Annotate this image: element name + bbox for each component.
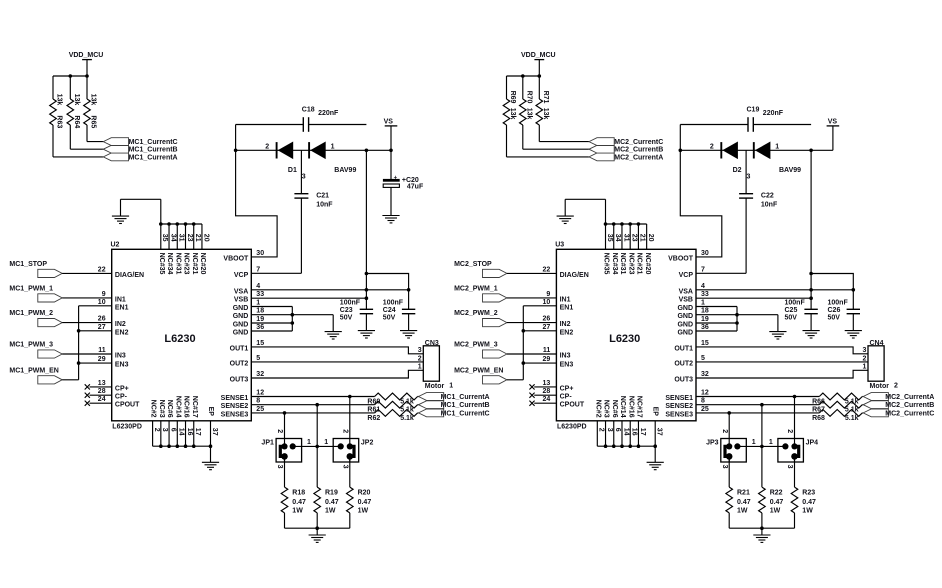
svg-text:R63: R63 bbox=[56, 115, 63, 128]
net label MC2_PWM_3 bbox=[454, 342, 498, 349]
wire VSA pin 4 bbox=[251, 289, 408, 291]
junction NC bus bbox=[167, 444, 171, 448]
wire VBOOT to bootstrap loop bbox=[236, 125, 278, 257]
svg-text:MC2_CurrentB: MC2_CurrentB bbox=[614, 147, 663, 154]
ground power resistors bbox=[309, 535, 326, 542]
resistor R69 13k bbox=[503, 76, 516, 157]
power VDD_MCU bbox=[521, 52, 556, 76]
svg-text:C21: C21 bbox=[316, 193, 329, 200]
svg-text:26: 26 bbox=[98, 316, 106, 323]
pin 20 NC#20 bbox=[199, 234, 209, 275]
wire jumper to R18 bbox=[284, 456, 286, 487]
junction NC bus bbox=[209, 444, 213, 448]
power VS bbox=[827, 119, 840, 126]
svg-text:NC#20: NC#20 bbox=[199, 253, 206, 275]
pin 31 NC#31 bbox=[619, 234, 629, 275]
flag MC1_CurrentC bbox=[103, 138, 128, 146]
wire SENSE1 bbox=[251, 396, 418, 398]
junction anode rail bbox=[809, 149, 813, 153]
svg-text:MC2_STOP: MC2_STOP bbox=[454, 261, 492, 268]
svg-text:22: 22 bbox=[543, 266, 551, 273]
wire SENSE3 drop to JP3 bbox=[728, 413, 730, 447]
pin 20 NC#20 bbox=[644, 234, 654, 275]
pin 15 OUT1 bbox=[674, 340, 709, 353]
capacitor C23 100nF 50V bbox=[340, 299, 373, 330]
svg-text:0.47: 0.47 bbox=[325, 499, 339, 506]
pin 14 NC#14 bbox=[174, 396, 184, 436]
wire JP3 pin1 to JP4 pin1 bbox=[737, 445, 785, 447]
svg-text:VCP: VCP bbox=[234, 272, 249, 279]
pin 30 VBOOT bbox=[668, 250, 709, 263]
part name L6230PD bbox=[112, 424, 142, 431]
wire bottom NC bus bbox=[153, 421, 211, 463]
net label MC2_CurrentA bbox=[614, 154, 663, 161]
pin 9 IN1 bbox=[546, 291, 570, 304]
resistor R23 0.47 1W bbox=[791, 487, 816, 528]
capacitor C25 100nF 50V bbox=[785, 299, 818, 330]
junction EN3 bus bbox=[77, 361, 81, 365]
wire SENSE3 bbox=[251, 412, 418, 414]
svg-text:NC#20: NC#20 bbox=[644, 253, 651, 275]
wire SENSE1 drop to JP2 bbox=[349, 397, 351, 447]
svg-text:DIAG/EN: DIAG/EN bbox=[560, 272, 589, 279]
svg-text:31: 31 bbox=[622, 234, 629, 242]
junction VS bbox=[389, 149, 393, 153]
pin 2 NC#2 bbox=[594, 400, 604, 432]
svg-text:13k: 13k bbox=[542, 108, 549, 120]
svg-text:VSB: VSB bbox=[234, 297, 248, 304]
wire PWM_EN to enable bus bbox=[62, 379, 78, 381]
svg-text:MC1_PWM_3: MC1_PWM_3 bbox=[9, 342, 53, 349]
svg-text:9: 9 bbox=[102, 291, 106, 298]
pin 32 OUT3 bbox=[230, 371, 265, 384]
pin 25 SENSE3 bbox=[665, 406, 709, 419]
wire to IN3 bbox=[507, 353, 557, 355]
pin 21 NC#21 bbox=[636, 234, 646, 275]
net label MC1_CurrentA bbox=[441, 394, 490, 401]
svg-text:NC#35: NC#35 bbox=[603, 253, 610, 275]
resistor R65 13k bbox=[84, 76, 97, 142]
svg-text:R68: R68 bbox=[812, 415, 825, 422]
pin 18 GND bbox=[677, 308, 708, 321]
pin 23 NC#23 bbox=[183, 234, 193, 275]
wire VSB pin 33 bbox=[251, 297, 366, 299]
pin 3 NC#3 bbox=[158, 400, 168, 432]
pin 19 GND bbox=[233, 316, 264, 329]
pin 31 NC#31 bbox=[174, 234, 184, 275]
svg-text:3: 3 bbox=[721, 465, 728, 469]
svg-text:GND: GND bbox=[233, 322, 249, 329]
wire power resistor rail bbox=[285, 528, 350, 535]
svg-text:C26: C26 bbox=[828, 307, 841, 314]
pin 16 NC#16 bbox=[627, 396, 637, 436]
svg-text:SENSE3: SENSE3 bbox=[221, 411, 249, 418]
net label MC1_PWM_3 bbox=[9, 342, 53, 349]
svg-text:DIAG/EN: DIAG/EN bbox=[115, 272, 144, 279]
svg-text:L6230: L6230 bbox=[164, 333, 195, 345]
svg-text:C22: C22 bbox=[761, 193, 774, 200]
svg-text:NC#6: NC#6 bbox=[166, 400, 173, 418]
svg-text:NC#16: NC#16 bbox=[627, 396, 634, 418]
svg-text:9: 9 bbox=[546, 291, 550, 298]
svg-text:100nF: 100nF bbox=[785, 299, 806, 306]
junction VSA bbox=[809, 288, 855, 292]
svg-text:MC1_CurrentC: MC1_CurrentC bbox=[441, 410, 490, 417]
svg-text:23: 23 bbox=[186, 234, 193, 242]
pin 1 GND bbox=[677, 300, 705, 313]
wire VS to rail bbox=[832, 126, 834, 150]
svg-text:MC2_CurrentC: MC2_CurrentC bbox=[614, 139, 663, 146]
resistor R63 13k bbox=[50, 76, 63, 157]
svg-text:OUT2: OUT2 bbox=[674, 360, 693, 367]
svg-text:R19: R19 bbox=[325, 489, 338, 496]
wire enable bus vertical bbox=[522, 306, 524, 380]
svg-text:2: 2 bbox=[341, 429, 348, 433]
svg-text:50V: 50V bbox=[383, 315, 396, 322]
svg-text:NC#21: NC#21 bbox=[191, 253, 198, 275]
svg-text:20: 20 bbox=[647, 234, 654, 242]
part name L6230PD bbox=[557, 424, 587, 431]
svg-text:10: 10 bbox=[98, 299, 106, 306]
svg-text:3: 3 bbox=[302, 174, 306, 181]
svg-text:VS: VS bbox=[828, 119, 838, 126]
svg-text:2: 2 bbox=[276, 429, 283, 433]
wire STOP to DIAG/EN pin 22 bbox=[507, 272, 557, 274]
pin 35 NC#35 bbox=[158, 234, 168, 275]
svg-text:5: 5 bbox=[701, 355, 705, 362]
wire bottom NC bus bbox=[597, 421, 655, 463]
wire EN2 to enable bus bbox=[523, 330, 556, 332]
wire OUT2 pin 5 bbox=[251, 361, 423, 363]
svg-text:13k: 13k bbox=[90, 94, 97, 106]
svg-text:0.47: 0.47 bbox=[802, 499, 816, 506]
wire to flag CurrentC bbox=[539, 141, 589, 143]
pin 34 NC#34 bbox=[166, 234, 176, 275]
svg-text:19: 19 bbox=[701, 316, 709, 323]
svg-text:GND: GND bbox=[677, 305, 693, 312]
junction VDD rail bbox=[69, 74, 89, 78]
junction rail center bbox=[315, 526, 319, 530]
wire top NC bus bbox=[161, 224, 202, 249]
net label MC1_PWM_1 bbox=[9, 286, 53, 293]
wire SENSE1 bbox=[696, 396, 863, 398]
svg-text:MC2_CurrentA: MC2_CurrentA bbox=[885, 394, 934, 401]
svg-text:14: 14 bbox=[622, 428, 629, 436]
svg-text:NC#3: NC#3 bbox=[158, 400, 165, 418]
junction SENSE2 bbox=[315, 403, 319, 407]
svg-text:IN1: IN1 bbox=[115, 296, 126, 303]
flag MC2_CurrentB bbox=[589, 145, 614, 153]
svg-text:16: 16 bbox=[186, 428, 193, 436]
svg-text:NC#14: NC#14 bbox=[619, 396, 626, 418]
svg-text:1: 1 bbox=[324, 439, 328, 446]
pin 15 OUT1 bbox=[230, 340, 265, 353]
junction NC bus bbox=[192, 222, 196, 226]
pin 32 OUT3 bbox=[674, 371, 709, 384]
svg-text:NC#2: NC#2 bbox=[150, 400, 157, 418]
svg-text:MC1_CurrentB: MC1_CurrentB bbox=[441, 402, 490, 409]
svg-text:13: 13 bbox=[98, 380, 106, 387]
svg-text:MC2_PWM_1: MC2_PWM_1 bbox=[454, 286, 498, 293]
ground EP bbox=[647, 462, 664, 469]
wire OUT3 pin 32 bbox=[251, 370, 423, 378]
svg-text:JP4: JP4 bbox=[806, 440, 819, 447]
svg-text:JP3: JP3 bbox=[706, 440, 719, 447]
svg-text:MC1_CurrentA: MC1_CurrentA bbox=[129, 154, 178, 161]
wire to flag CurrentB bbox=[70, 148, 103, 150]
pin 16 NC#16 bbox=[183, 396, 193, 436]
pin 2 NC#2 bbox=[150, 400, 160, 432]
svg-text:VDD_MCU: VDD_MCU bbox=[69, 52, 104, 59]
svg-text:R23: R23 bbox=[802, 489, 815, 496]
wire OUT1 pin 15 bbox=[251, 347, 423, 354]
pin 17 NC#17 bbox=[191, 396, 201, 436]
flag MC2_PWM_EN bbox=[483, 376, 507, 384]
svg-text:MC2_PWM_3: MC2_PWM_3 bbox=[454, 342, 498, 349]
svg-text:7: 7 bbox=[701, 266, 705, 273]
svg-text:1: 1 bbox=[307, 439, 311, 446]
wire SENSE1 drop to JP4 bbox=[794, 397, 796, 447]
junction NC bus bbox=[175, 444, 179, 448]
wire to IN1 bbox=[62, 297, 111, 299]
svg-text:29: 29 bbox=[98, 356, 106, 363]
pin 24 CPOUT no-connect bbox=[85, 396, 140, 409]
junction jumper rail bbox=[315, 445, 319, 449]
wire VSA pin 4 bbox=[696, 289, 853, 291]
pin 28 CP- no-connect bbox=[85, 388, 128, 401]
svg-text:2: 2 bbox=[721, 429, 728, 433]
resistor R18 0.47 1W bbox=[281, 487, 306, 528]
svg-text:1W: 1W bbox=[737, 508, 748, 515]
net label MC2_PWM_1 bbox=[454, 286, 498, 293]
svg-text:BAV99: BAV99 bbox=[334, 167, 356, 174]
svg-text:MC1_CurrentC: MC1_CurrentC bbox=[129, 139, 178, 146]
svg-text:13k: 13k bbox=[56, 94, 63, 106]
pin 5 OUT2 bbox=[674, 355, 705, 368]
svg-text:35: 35 bbox=[606, 234, 613, 242]
pin 8 SENSE2 bbox=[665, 398, 705, 411]
svg-text:14: 14 bbox=[178, 428, 185, 436]
svg-text:NC#34: NC#34 bbox=[166, 253, 173, 275]
wire to IN2 bbox=[62, 322, 111, 324]
svg-text:EP: EP bbox=[207, 407, 214, 417]
svg-text:U3: U3 bbox=[555, 242, 564, 249]
svg-text:20: 20 bbox=[202, 234, 209, 242]
junction NC bus bbox=[159, 444, 163, 448]
wire EN3 to enable bus bbox=[79, 362, 112, 364]
svg-text:2: 2 bbox=[265, 143, 269, 150]
jumper JP3 bbox=[503, 52, 818, 542]
junction SENSE1 bbox=[793, 395, 797, 399]
ground top NC bus bbox=[112, 199, 161, 224]
svg-text:4: 4 bbox=[256, 283, 260, 290]
svg-text:2: 2 bbox=[418, 355, 422, 362]
flag MC1_CurrentA bbox=[419, 393, 444, 401]
junction GND18 bbox=[735, 313, 739, 317]
svg-text:VBOOT: VBOOT bbox=[223, 255, 249, 262]
pin 1 GND bbox=[233, 300, 261, 313]
svg-text:MC2_PWM_EN: MC2_PWM_EN bbox=[454, 367, 503, 374]
svg-text:CN4: CN4 bbox=[870, 340, 884, 347]
svg-text:EN2: EN2 bbox=[560, 329, 574, 336]
capacitor C20 47uF bbox=[383, 150, 424, 215]
junction rail bbox=[365, 272, 369, 276]
svg-text:NC#3: NC#3 bbox=[603, 400, 610, 418]
svg-text:NC#14: NC#14 bbox=[174, 396, 181, 418]
junction GND18 bbox=[291, 313, 295, 317]
svg-text:MC1_PWM_EN: MC1_PWM_EN bbox=[9, 367, 58, 374]
svg-text:Motor: Motor bbox=[425, 383, 445, 390]
junction NC bus bbox=[628, 222, 632, 226]
svg-text:1W: 1W bbox=[770, 508, 781, 515]
svg-text:21: 21 bbox=[194, 234, 201, 242]
value L6230 bbox=[609, 333, 640, 345]
svg-text:13k: 13k bbox=[73, 94, 80, 106]
svg-text:CPOUT: CPOUT bbox=[115, 402, 140, 409]
svg-text:MC1_CurrentB: MC1_CurrentB bbox=[129, 147, 178, 154]
pin 19 GND bbox=[677, 316, 708, 329]
resistor R60 5.1k bbox=[367, 393, 417, 405]
wire SENSE3 bbox=[696, 412, 863, 414]
svg-text:GND: GND bbox=[677, 330, 693, 337]
wire to IN2 bbox=[507, 322, 557, 324]
ground C26 bbox=[845, 331, 862, 338]
wire GND pins bracket bbox=[251, 307, 333, 332]
junction VDD rail bbox=[521, 74, 541, 78]
svg-text:SENSE1: SENSE1 bbox=[665, 395, 693, 402]
svg-text:EP: EP bbox=[652, 407, 659, 417]
svg-text:27: 27 bbox=[543, 324, 551, 331]
pin 27 EN2 bbox=[98, 324, 129, 337]
junction VSB bbox=[365, 296, 369, 300]
pin 35 NC#35 bbox=[603, 234, 613, 275]
svg-text:18: 18 bbox=[701, 308, 709, 315]
svg-text:CP-: CP- bbox=[115, 394, 128, 401]
wire VS rail down to VSA/VSB bbox=[366, 150, 408, 309]
svg-text:17: 17 bbox=[194, 428, 201, 436]
pin 1 labels bbox=[752, 439, 773, 446]
pin 4 VSA bbox=[234, 283, 260, 296]
pin 33 VSB bbox=[234, 291, 264, 304]
wire OUT2 pin 5 bbox=[696, 361, 868, 363]
svg-text:5.1k: 5.1k bbox=[845, 415, 859, 422]
svg-text:C24: C24 bbox=[383, 307, 396, 314]
pin 18 GND bbox=[233, 308, 264, 321]
svg-text:15: 15 bbox=[701, 340, 709, 347]
svg-text:R62: R62 bbox=[367, 415, 380, 422]
wire VBOOT to bootstrap loop bbox=[680, 125, 722, 257]
ground C23 bbox=[358, 331, 375, 338]
svg-text:21: 21 bbox=[639, 234, 646, 242]
wire EN2 to enable bus bbox=[79, 330, 112, 332]
svg-text:R22: R22 bbox=[770, 489, 783, 496]
svg-text:24: 24 bbox=[543, 396, 551, 403]
resistor R61 5.1k bbox=[367, 401, 417, 413]
svg-text:28: 28 bbox=[543, 388, 551, 395]
svg-text:NC#31: NC#31 bbox=[619, 253, 626, 275]
junction bootstrap left bbox=[679, 149, 683, 153]
svg-text:29: 29 bbox=[543, 356, 551, 363]
svg-text:220nF: 220nF bbox=[318, 110, 339, 117]
svg-text:NC#23: NC#23 bbox=[627, 253, 634, 275]
svg-text:R18: R18 bbox=[292, 489, 305, 496]
svg-text:1: 1 bbox=[862, 364, 866, 371]
net label MC2_CurrentC bbox=[885, 410, 934, 417]
junction anode rail bbox=[365, 149, 369, 153]
pin 29 EN3 bbox=[98, 356, 129, 369]
pin 23 NC#23 bbox=[627, 234, 637, 275]
svg-text:CP-: CP- bbox=[560, 394, 573, 401]
pin 24 CPOUT no-connect bbox=[529, 396, 584, 409]
junction NC bus bbox=[175, 222, 179, 226]
pin 34 NC#34 bbox=[611, 234, 621, 275]
ground C24 bbox=[400, 331, 417, 338]
svg-text:32: 32 bbox=[256, 371, 264, 378]
svg-text:50V: 50V bbox=[340, 315, 353, 322]
junction NC bus bbox=[167, 222, 171, 226]
svg-text:1W: 1W bbox=[325, 508, 336, 515]
svg-text:CP+: CP+ bbox=[115, 385, 129, 392]
svg-text:CPOUT: CPOUT bbox=[560, 402, 585, 409]
junction VSB bbox=[809, 296, 813, 300]
pin 6 NC#6 bbox=[166, 400, 176, 432]
junction NC bus bbox=[653, 444, 657, 448]
wire anode rail bbox=[680, 149, 833, 151]
svg-text:EN3: EN3 bbox=[560, 362, 574, 369]
pin 36 GND bbox=[233, 324, 264, 337]
pin 13 CP+ no-connect bbox=[85, 380, 129, 393]
flag MC2_CurrentC bbox=[589, 138, 614, 146]
jumper JP2 bbox=[50, 52, 935, 542]
svg-text:16: 16 bbox=[631, 428, 638, 436]
junction NC bus bbox=[612, 444, 616, 448]
svg-text:GND: GND bbox=[233, 313, 249, 320]
svg-text:IN3: IN3 bbox=[115, 353, 126, 360]
svg-text:IN2: IN2 bbox=[560, 321, 571, 328]
svg-text:2: 2 bbox=[598, 428, 605, 432]
ground C20 bbox=[382, 216, 399, 223]
flag MC1_PWM_1 bbox=[38, 294, 62, 302]
net label MC1_CurrentC bbox=[441, 410, 490, 417]
diode D2 BAV99 pair bbox=[710, 142, 801, 181]
svg-text:VS: VS bbox=[384, 119, 394, 126]
svg-text:L6230: L6230 bbox=[609, 333, 640, 345]
svg-text:NC#35: NC#35 bbox=[158, 253, 165, 275]
svg-text:GND: GND bbox=[233, 330, 249, 337]
svg-text:U2: U2 bbox=[111, 242, 120, 249]
svg-text:47uF: 47uF bbox=[407, 184, 424, 191]
svg-text:7: 7 bbox=[256, 266, 260, 273]
svg-text:OUT3: OUT3 bbox=[230, 377, 249, 384]
svg-text:NC#34: NC#34 bbox=[611, 253, 618, 275]
pin 8 SENSE2 bbox=[221, 398, 261, 411]
pin 11 IN3 bbox=[543, 347, 571, 360]
svg-text:1: 1 bbox=[775, 143, 779, 150]
wire jumper to R19 bbox=[316, 486, 318, 488]
svg-text:27: 27 bbox=[98, 324, 106, 331]
svg-text:37: 37 bbox=[211, 428, 218, 436]
svg-text:11: 11 bbox=[543, 347, 551, 354]
wire VS to rail bbox=[390, 126, 392, 150]
svg-text:SENSE3: SENSE3 bbox=[665, 411, 693, 418]
svg-text:NC#17: NC#17 bbox=[191, 396, 198, 418]
svg-text:37: 37 bbox=[656, 428, 663, 436]
capacitor C26 100nF 50V bbox=[828, 290, 861, 331]
pin 13 CP+ no-connect bbox=[529, 380, 573, 393]
wire anode rail bbox=[236, 149, 392, 151]
junction bootstrap left bbox=[234, 149, 238, 153]
wire jumper to R22 bbox=[761, 486, 763, 488]
